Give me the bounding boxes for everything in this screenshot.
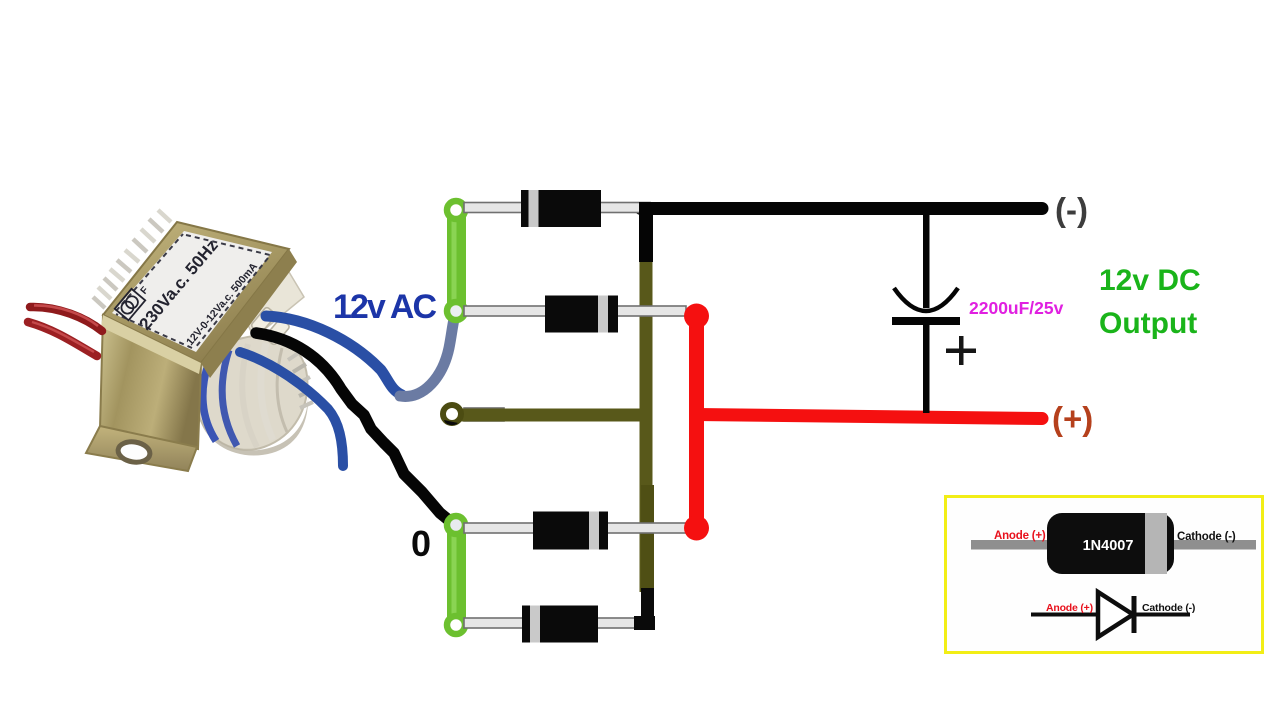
node: red junction upper <box>684 304 709 329</box>
front bracket face <box>100 315 201 449</box>
label: 12v AC <box>333 288 436 326</box>
label: 0 (center tap) <box>411 523 431 564</box>
wire: olive center-tap horizontal <box>455 408 652 421</box>
svg-text:0: 0 <box>411 523 431 564</box>
wire: black segment at bottom of olive bus to D4 cathode <box>634 588 655 630</box>
transformer T1 230V/12V photo <box>28 210 313 471</box>
legend box (1N4007 reference) <box>946 497 1263 653</box>
wire: red positive rail <box>696 415 1042 419</box>
diode D2 <box>464 296 686 333</box>
node: red junction lower <box>684 516 709 541</box>
lamination fins right of bobbin <box>288 352 313 408</box>
terminal: green lug bar upper (12v AC winding) <box>447 201 466 320</box>
wire: black center-tap lead to 0 terminal <box>256 333 456 526</box>
label: 2200uF/25v <box>969 298 1064 318</box>
legend: Cathode (-) label for symbol <box>1142 602 1195 614</box>
bobbin coil body <box>193 336 308 456</box>
legend: Anode (+) label for symbol <box>1046 602 1093 614</box>
legend: diode schematic symbol <box>1031 592 1190 637</box>
legend: Cathode (-) label for package <box>1177 531 1236 543</box>
wire: olive center vertical bus <box>640 258 655 592</box>
red primary wire lower <box>28 322 97 356</box>
diode D4 (bottom) <box>464 606 650 643</box>
wire: blue 12v lead to upper terminal <box>266 316 402 395</box>
wire: top negative rail <box>641 202 1042 215</box>
diode D1 (top) <box>464 190 650 227</box>
white terminal tabs <box>237 262 304 346</box>
terminal: olive ring lug (center tap 0V) <box>443 405 461 425</box>
svg-text:Output: Output <box>1099 307 1197 340</box>
wire: black vertical from D1 cathode <box>639 202 653 262</box>
wire: slate end of blue lead <box>400 311 456 396</box>
capacitor C1 2200uF/25v <box>892 213 976 413</box>
svg-text:Anode (+): Anode (+) <box>1046 602 1093 614</box>
svg-text:2200uF/25v: 2200uF/25v <box>969 298 1064 318</box>
legend: diode package body 1N4007 <box>1047 513 1174 574</box>
terminal: green lug bar lower (0V winding) <box>447 516 466 634</box>
svg-text:Cathode (-): Cathode (-) <box>1142 602 1195 614</box>
svg-text:(-): (-) <box>1055 191 1088 228</box>
svg-text:1N4007: 1N4007 <box>1083 538 1134 554</box>
svg-text:Anode (+): Anode (+) <box>994 530 1046 542</box>
label: (+) output <box>1052 400 1093 437</box>
svg-text:12v DC: 12v DC <box>1099 264 1201 297</box>
label: (-) output <box>1055 191 1088 228</box>
legend: diode package lead <box>971 540 1256 550</box>
legend: Anode (+) label for package <box>994 530 1046 542</box>
top face with label <box>103 222 289 363</box>
label: 12v DC Output <box>1099 264 1201 340</box>
wire: red vertical from D2/D3 junction <box>689 316 704 528</box>
wire: blue unconnected 12v lead <box>240 352 343 466</box>
svg-text:(+): (+) <box>1052 400 1093 437</box>
svg-text:Cathode (-): Cathode (-) <box>1177 531 1236 543</box>
label white <box>112 231 272 352</box>
lamination fins upper-left <box>93 210 171 308</box>
red primary wire upper <box>30 307 102 331</box>
svg-text:12v AC: 12v AC <box>333 288 436 326</box>
label logo <box>115 281 152 320</box>
mounting foot <box>86 426 197 471</box>
diode D3 <box>464 512 686 550</box>
right thin edge of frame <box>201 249 297 378</box>
